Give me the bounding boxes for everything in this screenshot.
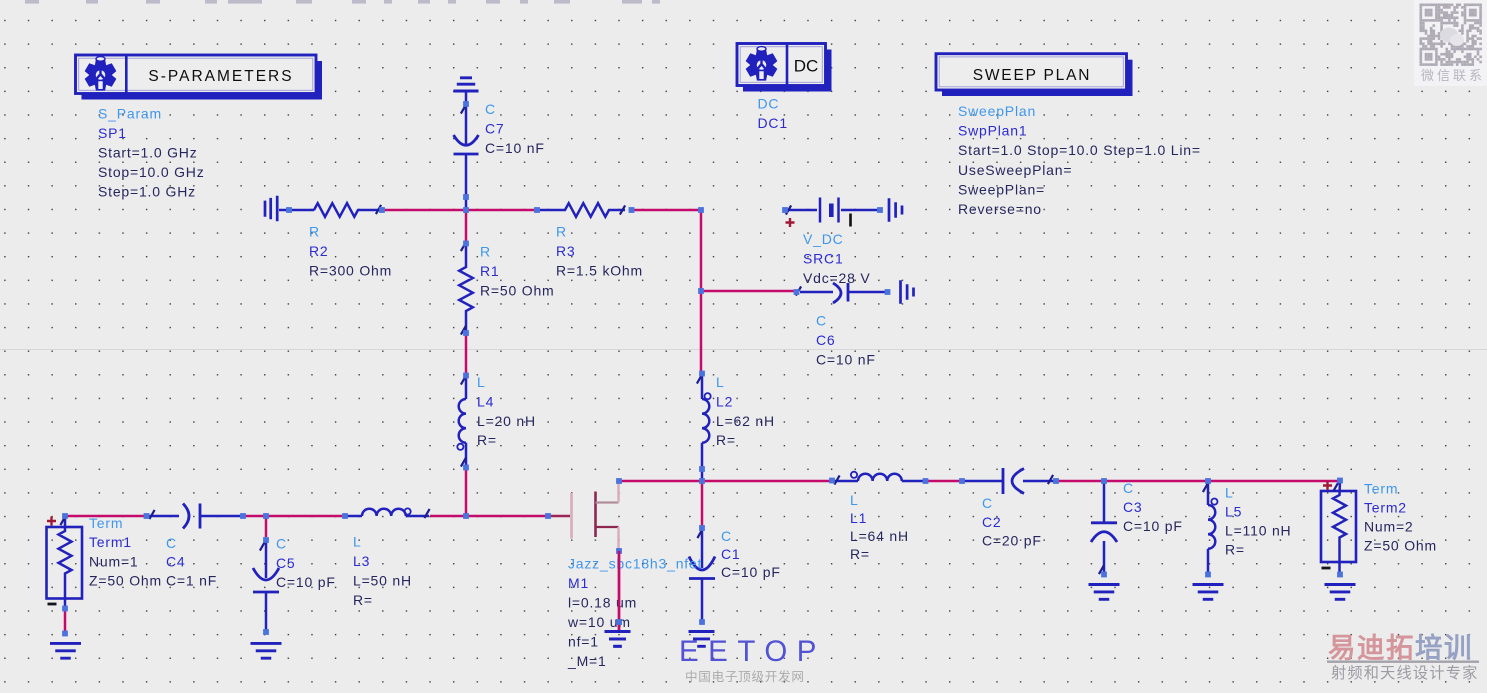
- svg-text:l=0.18 um: l=0.18 um: [568, 595, 637, 611]
- svg-text:DC: DC: [794, 57, 819, 76]
- svg-text:S_Param: S_Param: [98, 105, 162, 121]
- svg-text:L3: L3: [353, 553, 370, 569]
- svg-text:C=10 nF: C=10 nF: [485, 140, 545, 156]
- svg-text:DC: DC: [758, 96, 780, 112]
- svg-text:Term1: Term1: [89, 534, 132, 550]
- svg-text:EETOP: EETOP: [679, 635, 826, 668]
- svg-text:Step=1.0 GHz: Step=1.0 GHz: [98, 183, 196, 199]
- svg-text:V_DC: V_DC: [803, 231, 844, 247]
- svg-text:DC1: DC1: [758, 115, 788, 131]
- svg-text:R: R: [556, 224, 567, 240]
- svg-text:C: C: [721, 528, 732, 544]
- svg-text:C=10 nF: C=10 nF: [816, 351, 876, 367]
- svg-text:易迪拓培训: 易迪拓培训: [1328, 632, 1473, 663]
- svg-text:射频和天线设计专家: 射频和天线设计专家: [1331, 665, 1479, 682]
- svg-text:L=62 nH: L=62 nH: [716, 413, 775, 429]
- svg-text:Term2: Term2: [1364, 500, 1407, 516]
- svg-text:R=: R=: [353, 592, 373, 608]
- svg-text:微信联系: 微信联系: [1421, 68, 1485, 83]
- svg-text:C=10 pF: C=10 pF: [276, 574, 336, 590]
- svg-text:L: L: [353, 534, 362, 550]
- svg-text:L=110 nH: L=110 nH: [1225, 523, 1291, 539]
- svg-text:SweepPlan=: SweepPlan=: [958, 181, 1045, 197]
- svg-text:SRC1: SRC1: [803, 250, 844, 266]
- svg-text:R=300 Ohm: R=300 Ohm: [309, 262, 392, 278]
- svg-text:C=20 pF: C=20 pF: [982, 533, 1042, 549]
- svg-text:Num=2: Num=2: [1364, 519, 1414, 535]
- svg-text:L=64 nH: L=64 nH: [850, 528, 909, 544]
- svg-text:C=1 nF: C=1 nF: [166, 572, 217, 588]
- svg-text:R=: R=: [850, 546, 870, 562]
- svg-text:L4: L4: [477, 393, 494, 409]
- svg-text:Z=50 Ohm: Z=50 Ohm: [89, 573, 162, 589]
- svg-text:R: R: [480, 244, 491, 260]
- svg-text:_M=1: _M=1: [567, 653, 607, 669]
- svg-text:R3: R3: [556, 243, 576, 259]
- svg-text:SweepPlan: SweepPlan: [958, 103, 1036, 119]
- svg-text:Stop=10.0 GHz: Stop=10.0 GHz: [98, 164, 205, 180]
- svg-text:Reverse=no: Reverse=no: [958, 201, 1042, 217]
- svg-text:R=: R=: [477, 432, 497, 448]
- svg-text:Term: Term: [89, 515, 123, 531]
- svg-text:R=1.5 kOhm: R=1.5 kOhm: [556, 262, 643, 278]
- svg-text:L: L: [716, 374, 725, 390]
- svg-text:C=10 pF: C=10 pF: [721, 564, 781, 580]
- svg-text:Start=1.0 Stop=10.0 Step=1.0 L: Start=1.0 Stop=10.0 Step=1.0 Lin=: [958, 142, 1201, 158]
- svg-text:C2: C2: [982, 514, 1002, 530]
- svg-text:C1: C1: [721, 546, 741, 562]
- svg-text:nf=1: nf=1: [568, 634, 599, 650]
- svg-text:C5: C5: [276, 555, 296, 571]
- svg-text:L: L: [477, 374, 486, 390]
- svg-text:L2: L2: [716, 393, 733, 409]
- svg-text:L: L: [850, 492, 859, 508]
- svg-text:M1: M1: [568, 575, 589, 591]
- svg-text:L: L: [1225, 485, 1234, 501]
- svg-text:C: C: [276, 536, 287, 552]
- svg-text:R=: R=: [1225, 542, 1245, 558]
- svg-text:C: C: [982, 495, 993, 511]
- svg-text:C: C: [1123, 480, 1134, 496]
- svg-text:S-PARAMETERS: S-PARAMETERS: [148, 68, 293, 85]
- svg-text:R: R: [309, 224, 320, 240]
- svg-text:SWEEP PLAN: SWEEP PLAN: [973, 67, 1092, 84]
- svg-text:C4: C4: [166, 554, 186, 570]
- svg-text:Z=50 Ohm: Z=50 Ohm: [1364, 538, 1437, 554]
- svg-text:R1: R1: [480, 263, 500, 279]
- svg-text:C3: C3: [1123, 499, 1143, 515]
- svg-text:Jazz_sbc18h3_nfet: Jazz_sbc18h3_nfet: [568, 556, 702, 572]
- svg-text:Vdc=28 V: Vdc=28 V: [803, 270, 871, 286]
- svg-text:L=20 nH: L=20 nH: [477, 413, 536, 429]
- svg-text:R=50 Ohm: R=50 Ohm: [480, 282, 555, 298]
- svg-text:C=10 pF: C=10 pF: [1123, 518, 1183, 534]
- svg-text:L1: L1: [850, 510, 867, 526]
- svg-text:中国电子顶级开发网: 中国电子顶级开发网: [685, 669, 805, 684]
- svg-text:R=: R=: [716, 432, 736, 448]
- svg-text:Term: Term: [1364, 481, 1398, 497]
- svg-text:C7: C7: [485, 120, 505, 136]
- svg-text:SwpPlan1: SwpPlan1: [958, 123, 1027, 139]
- svg-text:Num=1: Num=1: [89, 553, 139, 569]
- svg-text:UseSweepPlan=: UseSweepPlan=: [958, 162, 1072, 178]
- svg-text:SP1: SP1: [98, 125, 127, 141]
- svg-text:C6: C6: [816, 332, 836, 348]
- svg-text:L=50 nH: L=50 nH: [353, 573, 412, 589]
- svg-text:C: C: [816, 313, 827, 329]
- svg-text:R2: R2: [309, 243, 329, 259]
- svg-text:C: C: [166, 535, 177, 551]
- svg-text:L5: L5: [1225, 504, 1242, 520]
- svg-text:C: C: [485, 101, 496, 117]
- svg-text:Start=1.0 GHz: Start=1.0 GHz: [98, 144, 198, 160]
